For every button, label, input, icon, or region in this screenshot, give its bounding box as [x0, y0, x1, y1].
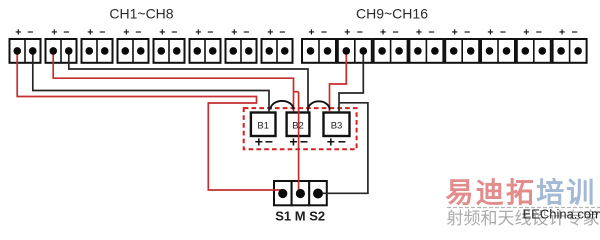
svg-text:B1: B1	[257, 121, 269, 132]
svg-text:−: −	[338, 134, 346, 150]
svg-text:−: −	[536, 27, 542, 39]
svg-text:+: +	[344, 27, 350, 39]
terminal block CH5 (+ -)	[154, 27, 185, 63]
node label S1 M S2	[275, 209, 325, 224]
wire CH10+ to B3 (red)	[330, 51, 347, 112]
wire CH1+ to S1 (red)	[17, 51, 283, 190]
terminal block CH9 (+ -)	[302, 27, 336, 63]
terminal block CH11 (+ -)	[374, 27, 408, 63]
svg-text:+: +	[195, 27, 201, 39]
svg-text:+: +	[87, 27, 93, 39]
wire CH10- to B3 (black)	[339, 51, 363, 112]
svg-text:+: +	[327, 134, 335, 150]
svg-text:−: −	[393, 27, 399, 39]
dashed bridge box outline	[244, 108, 357, 149]
svg-text:+: +	[308, 27, 314, 39]
terminal block CH14 (+ -)	[481, 27, 515, 63]
svg-text:+: +	[159, 27, 165, 39]
svg-text:−: −	[27, 27, 33, 39]
terminal block CH3 (+ -)	[82, 27, 113, 63]
terminal block CH12 (+ -)	[409, 27, 443, 63]
wire B2 feed to M (red)	[298, 92, 300, 193]
svg-text:−: −	[243, 27, 249, 39]
watermark dashed rule	[447, 207, 600, 209]
terminal block CH1 (+ -)	[10, 27, 41, 63]
terminal block CH15 (+ -)	[517, 27, 551, 63]
terminal block CH10 (+ -)	[338, 27, 372, 63]
svg-text:−: −	[428, 27, 434, 39]
svg-text:−: −	[171, 27, 177, 39]
terminal block CH6 (+ -)	[190, 27, 221, 63]
bridge terminal B3	[324, 113, 350, 150]
wire hop arc B2-B3	[308, 101, 330, 109]
svg-text:−: −	[207, 27, 213, 39]
node label CH9~CH16	[356, 6, 428, 22]
bridge terminal B1	[251, 113, 276, 150]
svg-text:−: −	[357, 27, 363, 39]
svg-text:−: −	[321, 27, 327, 39]
svg-text:+: +	[416, 27, 422, 39]
svg-text:+: +	[267, 27, 273, 39]
svg-text:+: +	[559, 27, 565, 39]
svg-text:+: +	[487, 27, 493, 39]
terminal block CH2 (+ -)	[46, 27, 77, 63]
watermark site	[523, 207, 600, 222]
terminal contact dots CH1~CH8	[13, 47, 288, 55]
svg-text:+: +	[123, 27, 129, 39]
wire CH1- to B1 (black)	[33, 51, 269, 113]
wire hop arc B1-B2	[271, 101, 294, 110]
terminal block CH4 (+ -)	[118, 27, 149, 63]
svg-text:−: −	[63, 27, 69, 39]
wire B3 junction to S2 (black)	[319, 103, 368, 194]
terminal block CH7 (+ -)	[226, 27, 257, 63]
svg-text:CH9~CH16: CH9~CH16	[356, 6, 428, 22]
wire bridge jog at B2 (red)	[294, 91, 299, 93]
svg-text:−: −	[464, 27, 470, 39]
svg-text:+: +	[523, 27, 529, 39]
contact dots S1 M S2	[278, 189, 323, 199]
svg-text:−: −	[135, 27, 141, 39]
svg-text:+: +	[452, 27, 458, 39]
svg-text:−: −	[265, 134, 273, 150]
svg-text:+: +	[289, 134, 297, 150]
svg-text:−: −	[500, 27, 506, 39]
node label CH1~CH8	[109, 6, 173, 22]
svg-text:+: +	[51, 27, 57, 39]
terminal block CH13 (+ -)	[445, 27, 479, 63]
watermark title	[446, 176, 597, 208]
bridge terminal B2	[287, 113, 310, 150]
svg-text:+: +	[255, 134, 263, 150]
svg-text:EEChina.com: EEChina.com	[523, 207, 600, 222]
wire CH2+ to B2 arc base (red)	[53, 51, 293, 112]
terminal contact dots CH9~CH16	[307, 47, 582, 55]
svg-text:−: −	[572, 27, 578, 39]
svg-text:CH1~CH8: CH1~CH8	[109, 6, 173, 22]
terminal block S1 M S2	[274, 181, 327, 205]
svg-text:−: −	[99, 27, 105, 39]
terminal block CH16 (+ -)	[553, 27, 587, 63]
svg-text:−: −	[279, 27, 285, 39]
svg-text:+: +	[15, 27, 21, 39]
svg-text:S1 M S2: S1 M S2	[275, 209, 325, 224]
svg-text:易迪拓培训: 易迪拓培训	[446, 176, 597, 208]
svg-text:+: +	[380, 27, 386, 39]
watermark subtitle	[447, 209, 600, 228]
terminal block CH8 (+ -)	[262, 27, 293, 63]
svg-text:+: +	[231, 27, 237, 39]
svg-text:−: −	[300, 134, 308, 150]
wire CH2- to B2 (black)	[69, 51, 308, 112]
svg-text:B3: B3	[331, 121, 343, 132]
